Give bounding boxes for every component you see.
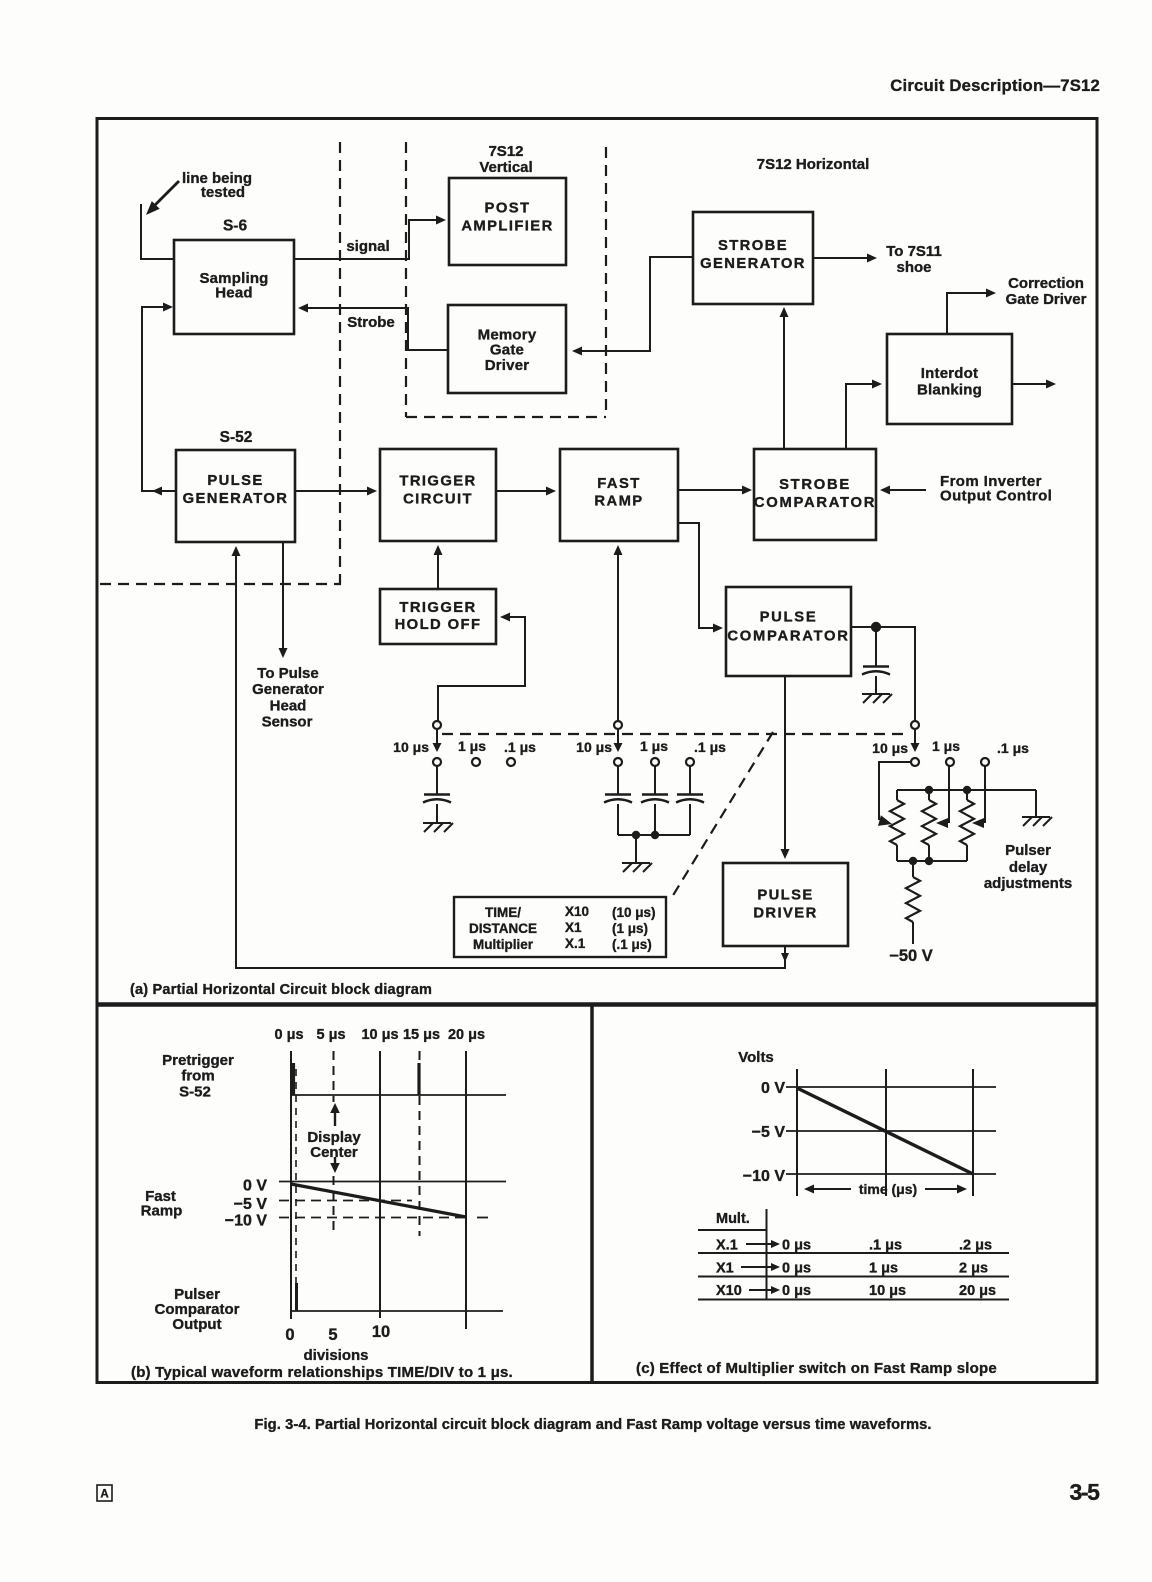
svg-text:−5 V: −5 V — [752, 1124, 786, 1141]
wire pulse generator to trigger circuit — [295, 490, 371, 492]
svg-text:COMPARATOR: COMPARATOR — [727, 629, 849, 645]
svg-text:.1 μs: .1 μs — [504, 739, 536, 755]
panel b gridline 10us — [379, 1051, 381, 1318]
capacitor C2c wire — [689, 766, 691, 794]
capacitor C1 — [424, 793, 450, 796]
wire interdot blanking output right — [1012, 383, 1048, 385]
display center up arrow — [334, 1111, 336, 1126]
capacitor C2a wire — [617, 766, 619, 794]
wire strobe generator to 7S11 shoe — [813, 257, 869, 259]
svg-text:0 V: 0 V — [761, 1080, 785, 1097]
svg-text:To Pulse: To Pulse — [257, 665, 318, 682]
svg-text:0 μs: 0 μs — [782, 1238, 811, 1254]
potentiometer R2 — [928, 790, 930, 800]
wire strobe comparator to interdot blanking — [846, 384, 878, 449]
node R2 top junction — [925, 786, 933, 794]
dashed region sampling head bottom — [100, 583, 341, 585]
svg-text:COMPARATOR: COMPARATOR — [754, 495, 876, 511]
wire capacitor common bus — [618, 834, 690, 836]
svg-text:(c) Effect of Multiplier switc: (c) Effect of Multiplier switch on Fast … — [636, 1360, 997, 1377]
svg-text:GENERATOR: GENERATOR — [700, 256, 806, 272]
node bus junction 2 — [651, 831, 659, 839]
svg-text:15 μs: 15 μs — [403, 1027, 440, 1043]
ground under fast ramp bank — [622, 862, 650, 864]
capacitor C2a — [605, 793, 631, 796]
switch selected contact — [433, 758, 441, 766]
capacitor C2b wire — [654, 766, 656, 794]
svg-text:10 μs: 10 μs — [393, 739, 429, 755]
svg-text:TIME/: TIME/ — [485, 905, 521, 920]
panel b gridline 0us — [290, 1051, 292, 1319]
svg-text:.2 μs: .2 μs — [959, 1238, 992, 1254]
svg-text:DISTANCE: DISTANCE — [469, 921, 537, 936]
svg-text:0 V: 0 V — [243, 1178, 267, 1195]
switch open contact — [507, 758, 515, 766]
block memory gate driver — [448, 305, 566, 393]
node bus junction 1 — [632, 831, 640, 839]
block pulse generator — [176, 450, 295, 542]
wire fast ramp to strobe comparator — [678, 489, 746, 491]
capacitor C1 wire — [436, 766, 438, 794]
switch wiper arrow — [617, 729, 619, 746]
svg-text:−50 V: −50 V — [889, 947, 933, 965]
svg-text:GENERATOR: GENERATOR — [183, 491, 289, 507]
svg-text:5: 5 — [328, 1326, 337, 1344]
wire fast ramp lower output to pulse comparator — [678, 523, 719, 628]
svg-text:To 7S11: To 7S11 — [886, 243, 942, 260]
svg-text:7S12: 7S12 — [488, 143, 523, 160]
pretrigger pulse at 0 — [292, 1063, 295, 1095]
svg-text:Fig. 3-4. Partial Horizontal c: Fig. 3-4. Partial Horizontal circuit blo… — [254, 1417, 931, 1433]
annotation arrow to line being tested — [152, 181, 179, 208]
ground under C4 — [862, 693, 890, 695]
block interdot blanking — [887, 334, 1012, 424]
svg-text:Vertical: Vertical — [479, 159, 532, 176]
svg-text:from: from — [181, 1068, 214, 1085]
svg-text:PULSE: PULSE — [207, 473, 263, 489]
panel c ramp slope — [797, 1088, 973, 1174]
block trigger circuit — [380, 449, 496, 541]
panel c vertical gridlines — [796, 1069, 798, 1196]
dashed link pulse 0 — [295, 1069, 297, 1283]
svg-text:HOLD OFF: HOLD OFF — [395, 617, 482, 633]
svg-text:Pretrigger: Pretrigger — [162, 1052, 234, 1069]
svg-text:Gate Driver: Gate Driver — [1006, 291, 1087, 308]
svg-text:Strobe: Strobe — [347, 314, 395, 331]
capacitor C2b — [642, 793, 668, 796]
multiplier table box — [454, 897, 666, 957]
pulser comparator baseline — [291, 1310, 503, 1312]
svg-text:−5 V: −5 V — [234, 1196, 268, 1213]
wire pulse generator to sampling head — [142, 307, 176, 491]
svg-text:7S12 Horizontal: 7S12 Horizontal — [757, 156, 870, 173]
svg-text:PULSE: PULSE — [757, 888, 813, 904]
panel c horizontal gridlines — [786, 1086, 996, 1088]
potentiometer bus top — [897, 789, 1036, 791]
mult table rule 3 — [698, 1276, 1009, 1278]
revision mark A — [97, 1485, 112, 1501]
panel b gridline 20us — [465, 1051, 467, 1329]
svg-text:AMPLIFIER: AMPLIFIER — [461, 219, 553, 235]
svg-text:0 μs: 0 μs — [782, 1261, 811, 1277]
wire strobe to sampling head — [300, 308, 448, 350]
svg-text:Driver: Driver — [485, 357, 530, 374]
svg-text:Generator: Generator — [252, 681, 324, 698]
block strobe generator — [693, 212, 813, 304]
potentiometer R1 — [896, 790, 898, 800]
block fast ramp — [560, 449, 678, 541]
svg-text:X10: X10 — [565, 904, 589, 919]
figure outer frame — [97, 119, 1097, 1383]
wire from inverter output control — [884, 489, 926, 491]
svg-text:Multiplier: Multiplier — [473, 937, 534, 952]
svg-text:(b) Typical waveform relations: (b) Typical waveform relationships TIME/… — [131, 1364, 513, 1381]
switch open contact — [981, 758, 989, 766]
ground lead right of bus — [1035, 790, 1037, 816]
svg-text:Head: Head — [215, 285, 252, 302]
svg-text:Mult.: Mult. — [716, 1211, 750, 1227]
svg-text:delay: delay — [1009, 859, 1048, 876]
dashed region sampling head S-6/S-52 vertical — [339, 142, 341, 584]
svg-text:A: A — [100, 1489, 108, 1501]
svg-text:Head: Head — [270, 698, 307, 715]
mult table rule 1 — [698, 1229, 767, 1231]
svg-text:Output: Output — [172, 1316, 221, 1333]
svg-text:1 μs: 1 μs — [458, 738, 486, 754]
svg-text:(a) Partial Horizontal Circuit: (a) Partial Horizontal Circuit block dia… — [130, 982, 432, 998]
svg-text:−10 V: −10 V — [743, 1168, 786, 1185]
svg-text:.1 μs: .1 μs — [997, 740, 1029, 756]
display center down arrow — [334, 1157, 336, 1165]
svg-text:S-52: S-52 — [220, 429, 253, 446]
switch open contact — [651, 758, 659, 766]
svg-text:(10 μs): (10 μs) — [612, 905, 656, 920]
svg-text:shoe: shoe — [896, 259, 931, 276]
node bottom bus junction 2 — [925, 857, 933, 865]
svg-text:tested: tested — [201, 184, 245, 201]
svg-text:adjustments: adjustments — [984, 875, 1072, 892]
svg-text:−10 V: −10 V — [225, 1213, 268, 1230]
svg-text:Volts: Volts — [738, 1049, 774, 1066]
svg-text:X1: X1 — [565, 920, 582, 935]
fast ramp 0V line — [279, 1181, 506, 1183]
switch wiper arrow — [436, 729, 438, 746]
fast ramp slope — [291, 1184, 466, 1217]
svg-text:S-52: S-52 — [179, 1084, 211, 1101]
svg-text:20 μs: 20 μs — [959, 1283, 996, 1299]
switch selected contact — [911, 758, 919, 766]
wire pulse driver feedback to pulse generator — [236, 550, 785, 968]
switch pole contact — [911, 721, 919, 729]
svg-text:Pulser: Pulser — [1005, 842, 1051, 859]
block strobe comparator — [754, 449, 876, 540]
block pulse comparator — [726, 587, 851, 676]
svg-text:5 μs: 5 μs — [316, 1027, 345, 1043]
wire .1us contact to R3 wiper — [984, 765, 986, 823]
wire pulse comparator to delay switch — [851, 627, 915, 721]
node line under test — [141, 204, 174, 259]
svg-text:S-6: S-6 — [223, 218, 248, 235]
fast ramp -5V dashed — [279, 1200, 412, 1202]
mult table rule 4 — [698, 1299, 1009, 1301]
svg-text:RAMP: RAMP — [594, 494, 643, 510]
wire trigger hold off to trigger circuit — [437, 549, 439, 589]
wire 1us contact to R2 wiper — [948, 766, 950, 823]
wire signal to post amplifier — [294, 220, 442, 259]
wire timing switch to trigger hold off — [438, 617, 525, 721]
dashed region 7S12 vertical left — [405, 142, 407, 417]
panel b gridline 5us dashed — [333, 1051, 335, 1102]
svg-text:3-5: 3-5 — [1069, 1479, 1100, 1505]
block pulse driver — [723, 863, 848, 946]
switch open contact — [686, 758, 694, 766]
svg-text:Circuit Description—7S12: Circuit Description—7S12 — [890, 76, 1100, 95]
capacitor C4 stub — [875, 631, 877, 666]
svg-text:2 μs: 2 μs — [959, 1261, 988, 1277]
svg-text:Sensor: Sensor — [262, 714, 313, 731]
ground stub fast ramp bank — [635, 835, 637, 863]
svg-text:X.1: X.1 — [565, 936, 586, 951]
svg-text:.1 μs: .1 μs — [869, 1238, 902, 1254]
block trigger hold off — [380, 589, 496, 644]
panel divider vertical — [590, 1005, 594, 1383]
svg-text:TRIGGER: TRIGGER — [399, 474, 476, 490]
svg-text:FAST: FAST — [597, 476, 640, 492]
svg-text:10 μs: 10 μs — [869, 1283, 906, 1299]
pulser comparator pulse — [295, 1283, 298, 1311]
svg-text:PULSE: PULSE — [760, 610, 818, 626]
block sampling head — [174, 240, 294, 334]
capacitor C2c — [677, 793, 703, 796]
svg-text:X10: X10 — [716, 1283, 742, 1299]
pretrigger pulse at 15us — [417, 1063, 420, 1095]
wire interdot blanking to correction gate driver — [947, 293, 988, 334]
time axis left arrow — [810, 1188, 851, 1190]
svg-text:1 μs: 1 μs — [869, 1261, 898, 1277]
svg-text:1 μs: 1 μs — [932, 738, 960, 754]
potentiometer R3 — [966, 790, 968, 800]
svg-text:10 μs: 10 μs — [872, 740, 908, 756]
svg-text:Output Control: Output Control — [940, 488, 1052, 505]
svg-text:(.1 μs): (.1 μs) — [612, 937, 652, 952]
node bottom bus junction 1 — [909, 857, 917, 865]
svg-text:0: 0 — [285, 1326, 294, 1344]
svg-text:(1 μs): (1 μs) — [612, 921, 648, 936]
dashed region 7S12 vertical bottom — [406, 416, 606, 418]
svg-text:Interdot: Interdot — [921, 365, 978, 382]
svg-text:DRIVER: DRIVER — [753, 906, 817, 922]
fast ramp -10V dashed — [279, 1217, 464, 1219]
svg-text:divisions: divisions — [303, 1347, 368, 1364]
svg-text:Correction: Correction — [1008, 275, 1084, 292]
switch pole contact — [614, 721, 622, 729]
switch wiper arrow — [914, 729, 916, 746]
wire to pulse generator head sensor — [282, 542, 284, 650]
node R3 top junction — [963, 786, 971, 794]
switch open contact — [946, 758, 954, 766]
svg-text:time (μs): time (μs) — [859, 1181, 917, 1197]
svg-text:signal: signal — [346, 238, 389, 255]
svg-text:10 μs: 10 μs — [576, 739, 612, 755]
svg-text:STROBE: STROBE — [718, 238, 788, 254]
capacitor C4 — [863, 665, 889, 668]
ground right of network — [1022, 816, 1050, 818]
svg-text:STROBE: STROBE — [779, 477, 851, 493]
svg-text:Blanking: Blanking — [917, 382, 982, 399]
dashed region 7S12 vertical right — [605, 147, 607, 416]
svg-text:0 μs: 0 μs — [274, 1027, 303, 1043]
panel divider horizontal — [97, 1002, 1097, 1007]
time axis right arrow — [925, 1188, 961, 1190]
switch selected contact — [614, 758, 622, 766]
wire fast ramp timing switch — [617, 549, 619, 721]
dashed pointer to multiplier table — [672, 732, 773, 897]
svg-text:TRIGGER: TRIGGER — [399, 600, 476, 616]
pretrigger baseline — [291, 1094, 506, 1096]
resistor R4 to -50V — [912, 861, 914, 877]
mult table vertical line — [766, 1209, 768, 1300]
svg-text:.1 μs: .1 μs — [694, 739, 726, 755]
svg-text:X.1: X.1 — [716, 1238, 738, 1254]
wire trigger circuit to fast ramp — [496, 490, 550, 492]
svg-text:10 μs: 10 μs — [361, 1027, 398, 1043]
svg-text:10: 10 — [372, 1323, 390, 1341]
panel b gridline 15us dashed — [419, 1051, 421, 1236]
ground under C1 — [423, 822, 451, 824]
switch pole contact — [433, 721, 441, 729]
switch open contact — [472, 758, 480, 766]
mult table rule 2 — [698, 1252, 1009, 1254]
svg-text:Gate: Gate — [490, 342, 524, 359]
svg-text:X1: X1 — [716, 1261, 734, 1277]
svg-text:1 μs: 1 μs — [640, 738, 668, 754]
svg-text:20 μs: 20 μs — [448, 1027, 485, 1043]
potentiometer bus bottom — [897, 860, 967, 862]
switch gang dashed link — [442, 733, 908, 735]
block post amplifier — [449, 178, 566, 265]
wire strobe generator to memory gate driver — [574, 257, 693, 351]
wire pulse comparator to pulse driver — [784, 676, 786, 855]
wire strobe comparator to strobe generator — [783, 309, 785, 449]
wire 10us contact to R1 wiper — [879, 762, 911, 820]
svg-text:Ramp: Ramp — [141, 1203, 183, 1220]
node junction pulse comparator output — [871, 622, 881, 632]
svg-text:POST: POST — [485, 201, 531, 217]
svg-text:0 μs: 0 μs — [782, 1283, 811, 1299]
svg-text:CIRCUIT: CIRCUIT — [403, 492, 473, 508]
